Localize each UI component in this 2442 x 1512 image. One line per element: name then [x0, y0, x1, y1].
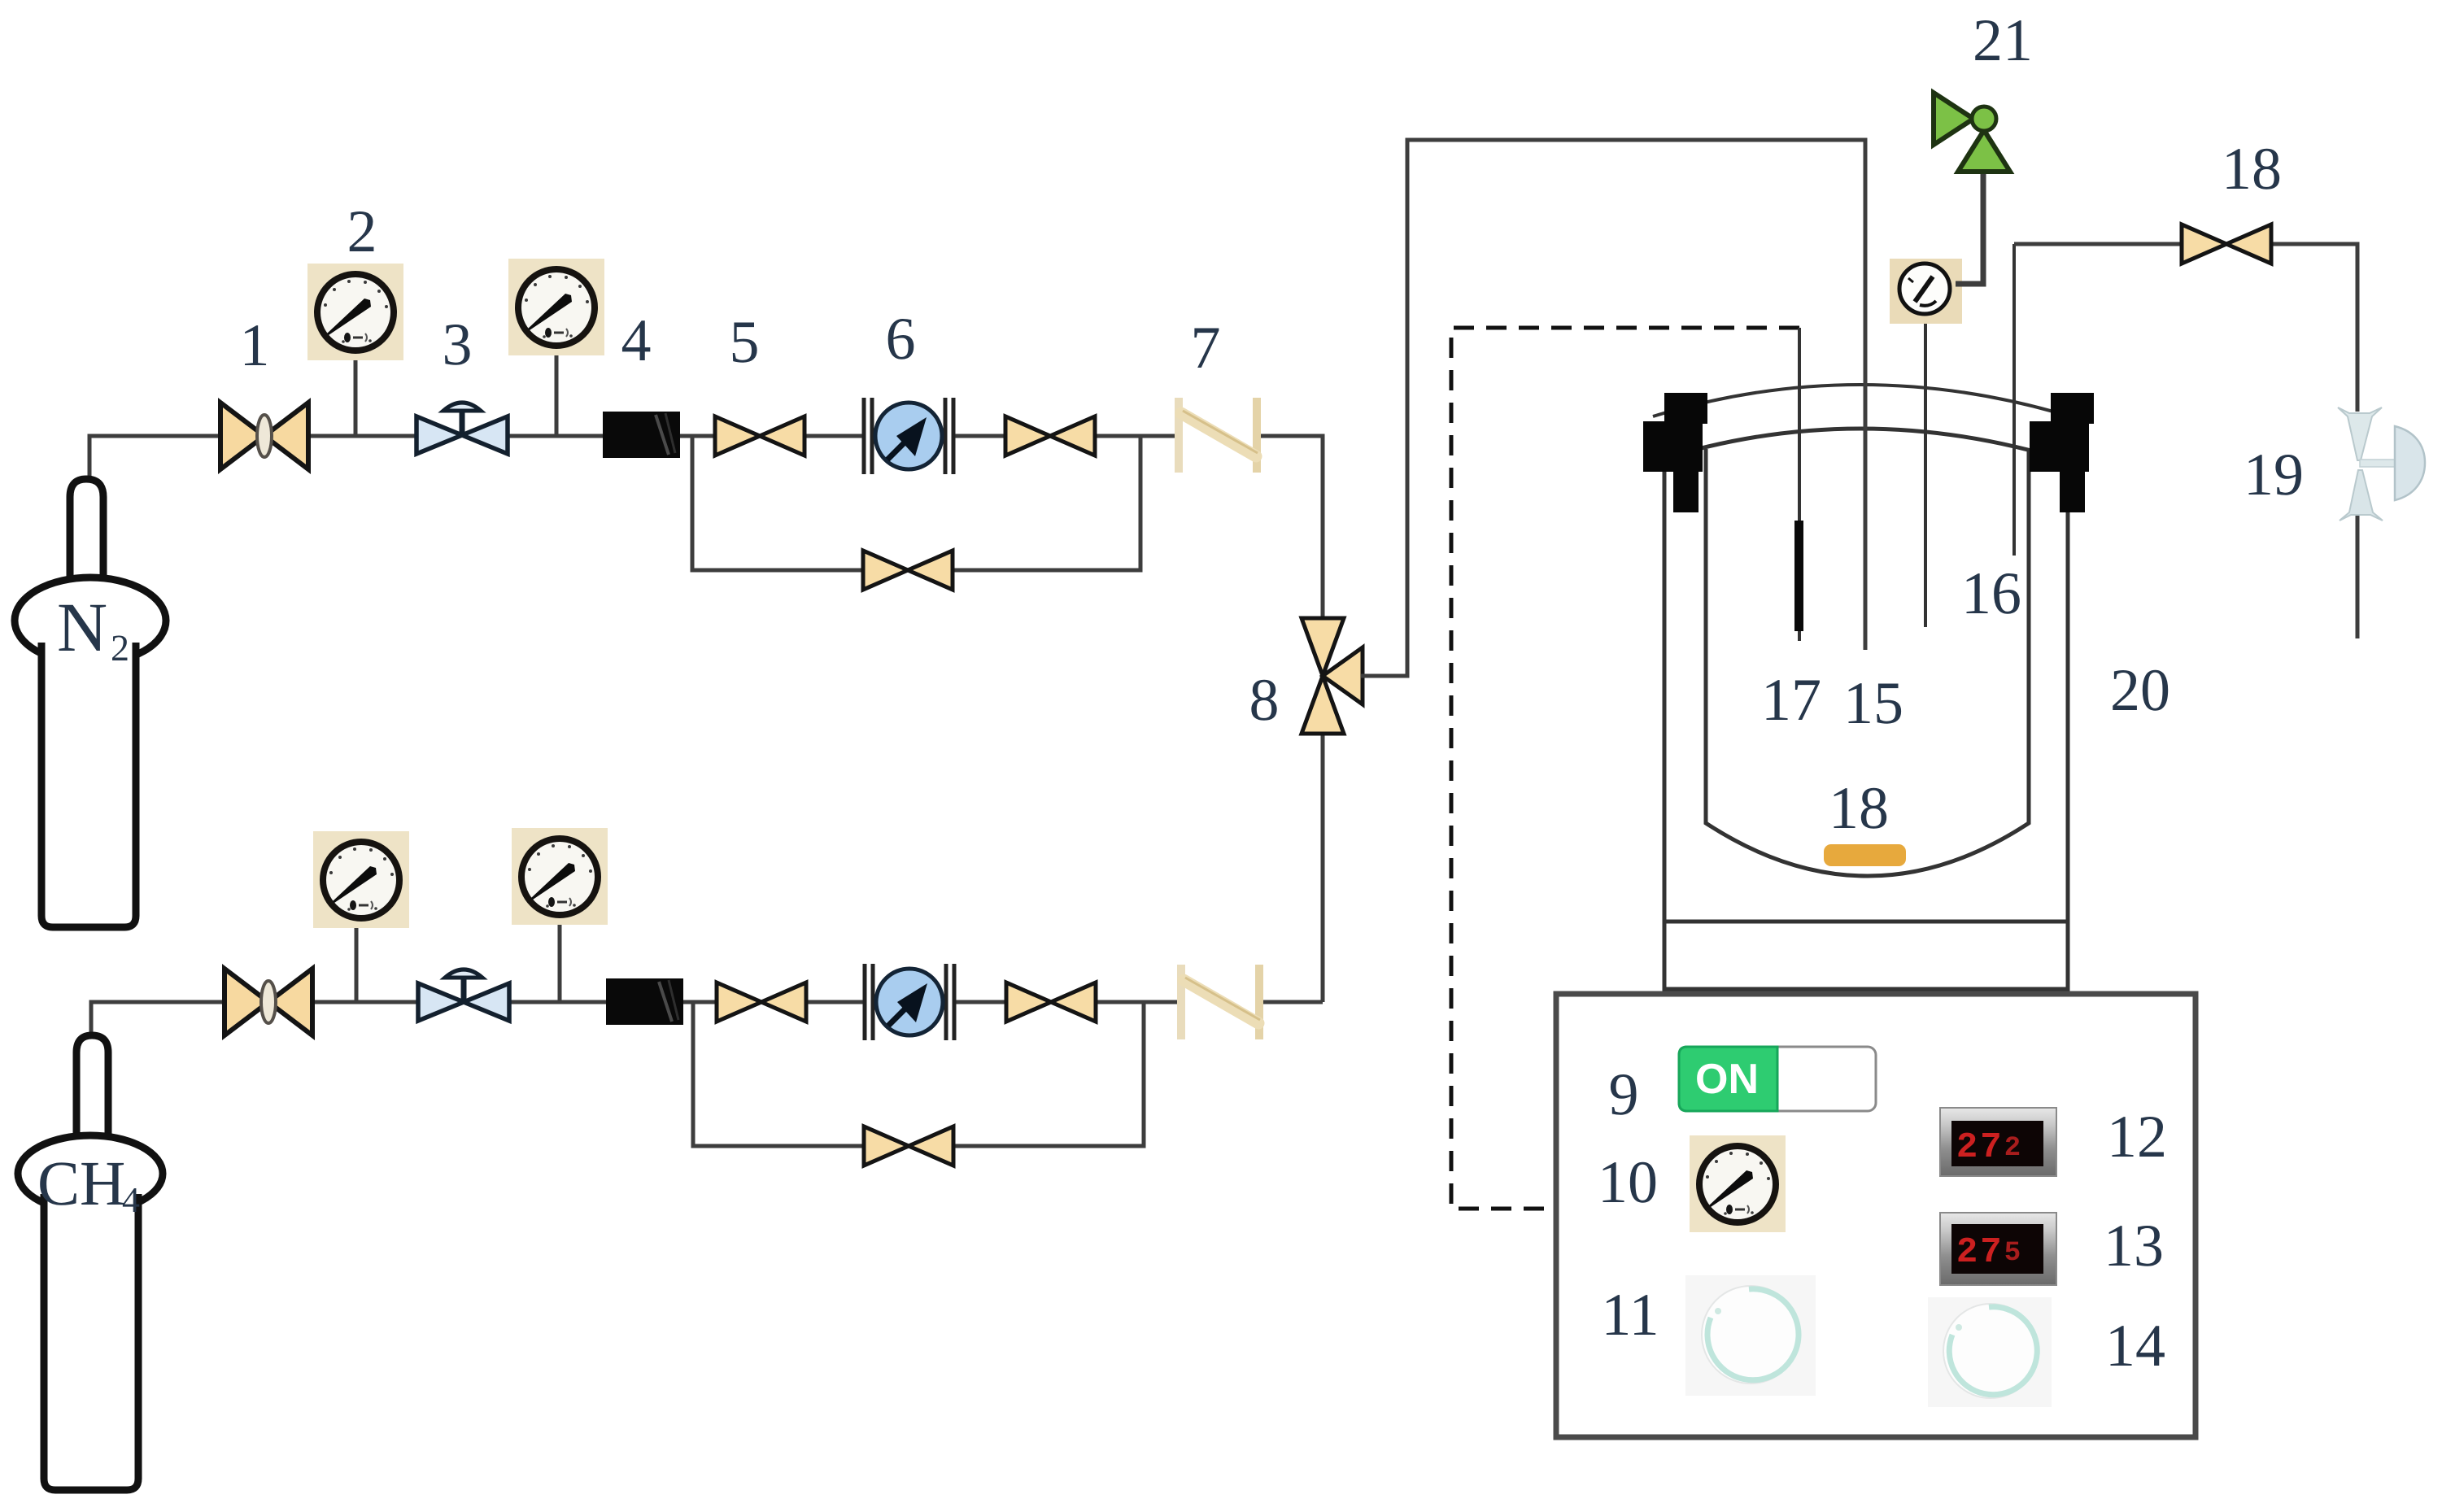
CH4 branch cylinder valve	[225, 969, 312, 1035]
svg-text:18: 18	[1829, 775, 1889, 842]
turbine 19	[2338, 407, 2425, 521]
wire filter to valve	[682, 1000, 717, 1004]
flowmeter 6	[864, 398, 953, 474]
svg-text:5: 5	[730, 309, 760, 376]
svg-text:7: 7	[1191, 315, 1221, 381]
svg-text:15: 15	[1843, 670, 1903, 737]
wire bypass loop top branch	[692, 436, 1140, 570]
reactor lid	[1653, 385, 2086, 465]
wire three-way valve 8 to reactor feed line 15	[1361, 140, 1865, 676]
wire blue valve to filter	[509, 1000, 607, 1004]
CH4 branch flowmeter	[865, 964, 954, 1040]
svg-text:16: 16	[1961, 560, 2021, 627]
wire valve 3 to filter 4	[507, 434, 604, 438]
svg-text:2: 2	[347, 198, 377, 265]
thermocouple 17 probe	[1794, 328, 1803, 641]
valve 5	[715, 416, 805, 455]
svg-text:1: 1	[240, 312, 270, 379]
heater 18 in vessel	[1824, 844, 1906, 866]
svg-text:11: 11	[1601, 1282, 1659, 1349]
svg-text:17: 17	[1761, 667, 1821, 734]
check valve 7	[1179, 398, 1258, 473]
display 13	[1940, 1213, 2056, 1285]
right clamp	[2030, 393, 2094, 512]
svg-text:275: 275	[1956, 1232, 2023, 1273]
pressure gauge after valve 3	[508, 259, 604, 436]
pressure gauge 2	[307, 264, 403, 436]
wire three-way valve 8 down to CH4 branch	[1321, 731, 1325, 1002]
wire CH4 cylinder to valve	[91, 1002, 225, 1049]
svg-text:18: 18	[2222, 136, 2282, 203]
gas outlet line 16 into vessel	[2012, 244, 2016, 556]
wire valve 5 to flowmeter 6	[805, 434, 864, 438]
pressure sensor line into vessel	[1924, 324, 1927, 627]
wire check valve to three-way valve 8 riser	[1261, 1000, 1323, 1004]
wire valve to check valve	[1093, 1000, 1181, 1004]
svg-text:4: 4	[621, 307, 652, 374]
CH4 branch valve after flowmeter	[1006, 983, 1096, 1022]
svg-text:9: 9	[1609, 1061, 1639, 1128]
svg-text:N: N	[57, 588, 107, 666]
small pressure gauge on reactor	[1890, 259, 1962, 324]
svg-text:20: 20	[2110, 657, 2170, 724]
valve 3 pressure regulating valve	[416, 403, 508, 454]
svg-text:CH: CH	[37, 1148, 125, 1218]
wire valve to flowmeter	[806, 1000, 865, 1004]
three-way valve 8	[1302, 618, 1363, 734]
dashed signal line thermocouple to control panel	[1451, 328, 1799, 1209]
gas cylinder N2	[15, 479, 166, 927]
CH4 branch bypass valve	[864, 1126, 953, 1166]
CH4 branch filter	[606, 978, 683, 1025]
wire flowmeter 6 to valve	[953, 434, 1009, 438]
svg-text:19: 19	[2244, 442, 2304, 508]
wire vessel to valve 18	[2014, 244, 2357, 412]
valve 1 N2 cylinder valve	[220, 403, 308, 469]
control panel box	[1556, 994, 2196, 1437]
svg-text:272: 272	[1956, 1127, 2023, 1168]
wire filter 4 to valve 5	[678, 434, 716, 438]
svg-text:12: 12	[2107, 1104, 2167, 1170]
CH4 branch pressure gauge 2	[512, 828, 608, 1002]
svg-text:8: 8	[1249, 667, 1280, 734]
wire valve to check valve 7	[1092, 434, 1139, 438]
wire flowmeter to valve	[954, 1000, 1010, 1004]
wire check valve 7 to three-way valve 8	[1259, 436, 1323, 620]
wire below turbine 19	[2356, 516, 2360, 638]
CH4 branch valve	[717, 983, 806, 1022]
display 12	[1940, 1108, 2056, 1176]
knob 11	[1685, 1275, 1816, 1396]
svg-text:6: 6	[886, 306, 916, 373]
bypass valve top branch	[863, 551, 953, 590]
wire CH4 valve to blue valve	[312, 1000, 420, 1004]
wire bypass loop bottom branch	[693, 1002, 1144, 1146]
wire N2 cylinder to valve 1	[89, 436, 221, 488]
filter 4	[603, 412, 680, 458]
svg-text:13: 13	[2104, 1213, 2164, 1279]
knob 14	[1928, 1297, 2052, 1407]
CH4 branch check valve	[1181, 965, 1260, 1039]
valve 18 top right	[2182, 224, 2271, 264]
gas cylinder CH4	[18, 1035, 163, 1490]
svg-text:21: 21	[1973, 7, 2033, 74]
CH4 branch pressure regulating valve	[418, 970, 509, 1021]
reactor outer vessel 20	[1664, 452, 2068, 989]
svg-text:4: 4	[122, 1180, 140, 1220]
power switch 9	[1679, 1047, 1876, 1111]
svg-text:14: 14	[2105, 1313, 2165, 1379]
svg-text:3: 3	[443, 312, 473, 378]
left clamp	[1643, 393, 1707, 512]
wire valve 1 to valve 3	[307, 434, 417, 438]
svg-text:10: 10	[1598, 1149, 1658, 1216]
svg-text:ON: ON	[1695, 1056, 1759, 1103]
reactor inner vessel	[1706, 449, 2029, 876]
svg-text:2: 2	[111, 627, 129, 669]
valve after flowmeter 6	[1005, 416, 1095, 455]
stirrer motor 21	[1934, 93, 2010, 284]
gauge 10 on panel	[1690, 1135, 1786, 1232]
CH4 branch pressure gauge 1	[313, 831, 409, 1002]
